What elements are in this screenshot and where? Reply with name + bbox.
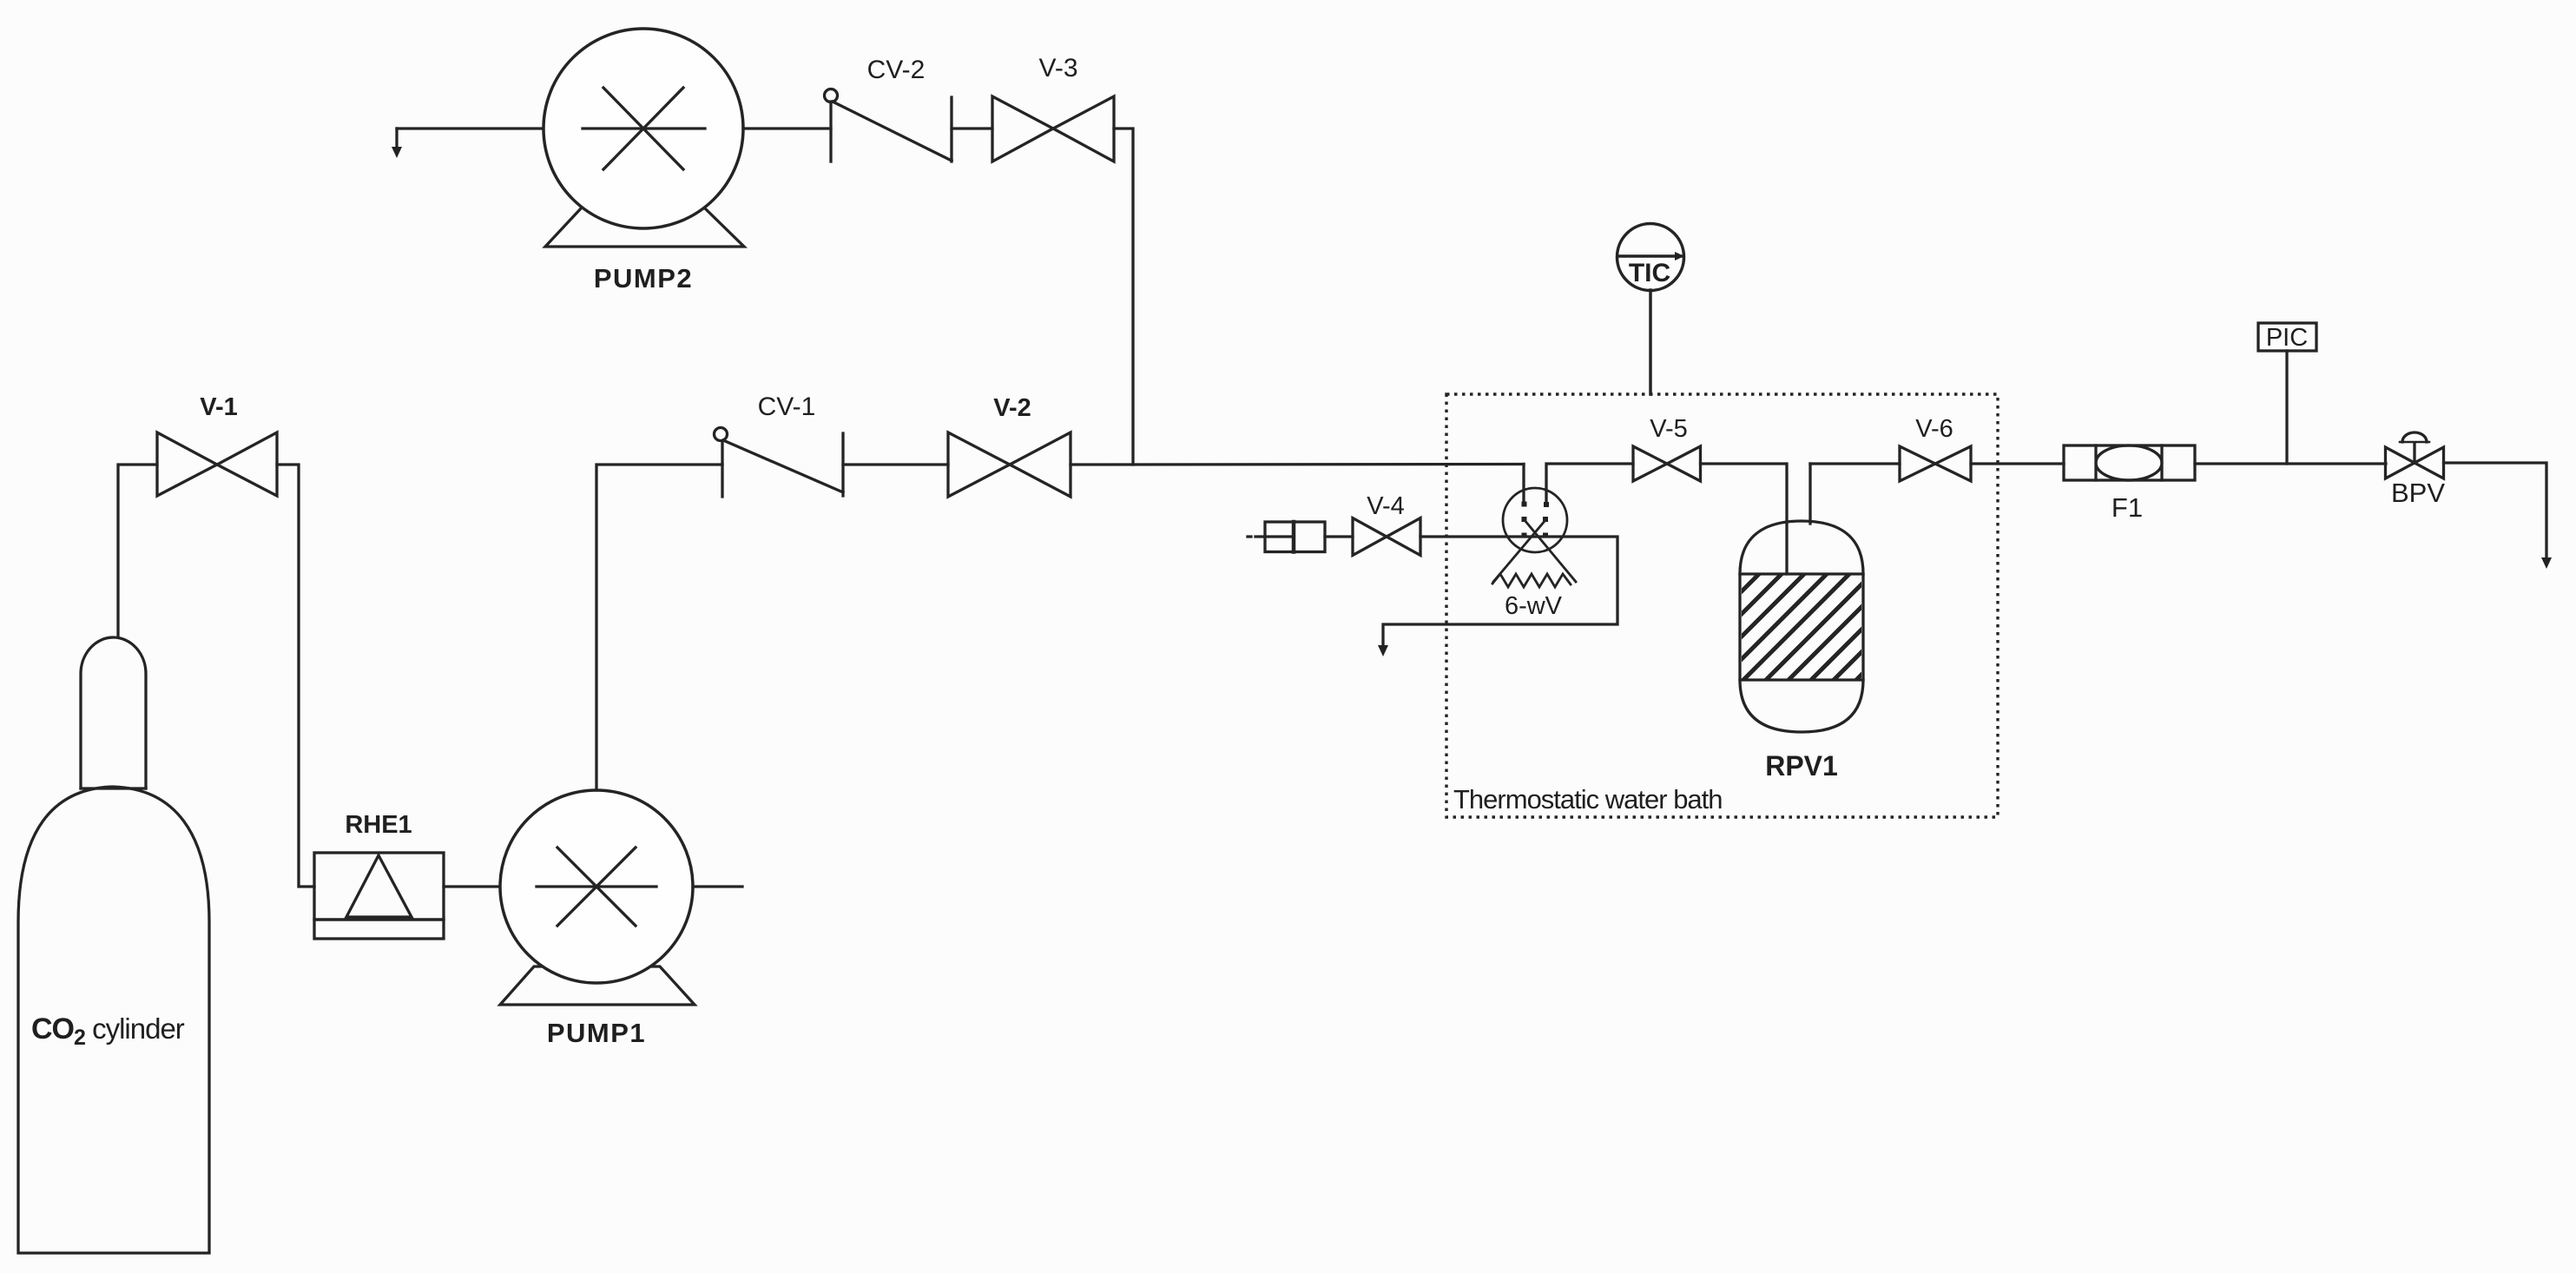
svg-text:CV-2: CV-2 (867, 56, 926, 84)
svg-text:6-wV: 6-wV (1505, 592, 1563, 620)
svg-text:CO2 cylinder: CO2 cylinder (31, 1012, 185, 1050)
svg-text:V-1: V-1 (200, 393, 238, 421)
svg-text:Thermostatic water bath: Thermostatic water bath (1453, 784, 1723, 815)
svg-text:TIC: TIC (1629, 259, 1670, 287)
svg-text:PIC: PIC (2266, 324, 2308, 352)
svg-text:V-5: V-5 (1650, 415, 1688, 443)
svg-text:V-6: V-6 (1915, 415, 1953, 443)
svg-text:BPV: BPV (2391, 478, 2445, 508)
svg-text:PUMP2: PUMP2 (594, 263, 693, 294)
svg-text:CV-1: CV-1 (758, 392, 816, 421)
svg-text:F1: F1 (2112, 492, 2143, 523)
svg-text:V-3: V-3 (1038, 54, 1077, 82)
svg-text:RHE1: RHE1 (345, 811, 412, 839)
svg-text:PUMP1: PUMP1 (547, 1018, 646, 1048)
svg-text:RPV1: RPV1 (1765, 750, 1838, 782)
svg-text:V-4: V-4 (1367, 492, 1405, 520)
svg-text:V-2: V-2 (993, 394, 1031, 422)
